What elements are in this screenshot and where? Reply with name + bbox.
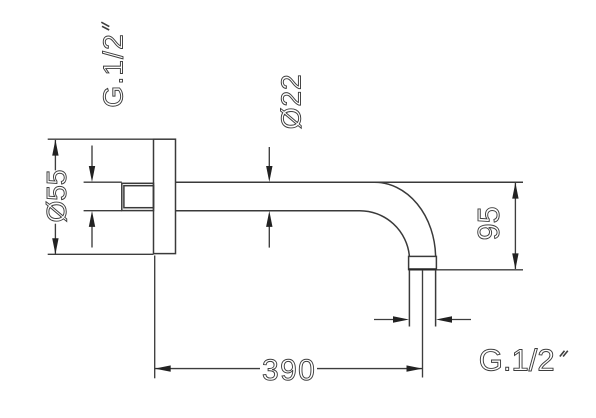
thread arrow down to tube top	[89, 146, 95, 183]
dimension 95 bottom extension line	[436, 269, 523, 271]
svg-text:Ø55: Ø55	[41, 170, 72, 223]
threaded wall connector outer rectangle	[122, 183, 154, 210]
dimension 390 line right segment	[317, 368, 423, 370]
svg-text:Ø22: Ø22	[276, 73, 307, 129]
tube centerline below ring	[422, 270, 424, 378]
thread arrow up to tube bottom	[89, 211, 95, 248]
svg-text:G.1/2: G.1/2	[479, 343, 555, 378]
dimension 95 line	[514, 183, 516, 269]
label O55 (rotated)	[41, 170, 72, 223]
label G.1/2 bottom right double prime marks	[560, 351, 568, 357]
dimension O55 top extension line	[48, 138, 154, 140]
shower arm tube bottom line with bend inner arc	[176, 211, 410, 257]
lower nut ring on vertical tube	[409, 256, 437, 269]
svg-text:G.1/2: G.1/2	[97, 33, 128, 107]
shower arm bend outer arc	[375, 182, 436, 256]
dimension 390 left extension line	[154, 256, 156, 379]
dimension 95 arrow down	[512, 253, 518, 269]
label 95 (rotated)	[472, 206, 506, 240]
dimension 390 line left segment	[155, 368, 260, 370]
thread left extension line top	[84, 181, 122, 183]
thread left extension line bottom	[84, 210, 122, 212]
label 390	[262, 354, 316, 387]
label G.1/2 top left (rotated)	[97, 33, 128, 107]
label G.1/2 top left double prime marks	[101, 22, 109, 30]
dimension 390 arrow right	[407, 365, 423, 371]
dimension O22 arrow up to tube bottom	[266, 211, 272, 248]
dimension O55 arrow up	[52, 140, 58, 156]
label O22 (rotated)	[276, 73, 307, 129]
dimension 390 arrow left	[155, 365, 171, 371]
outlet arrow pointing right to tube left line	[374, 316, 409, 322]
svg-text:95: 95	[472, 206, 506, 240]
dimension 95 arrow up	[512, 183, 518, 199]
vertical tube lower section right line	[435, 270, 437, 327]
wall flange plate	[154, 139, 176, 253]
shower arm tube top line with right extension	[176, 181, 524, 183]
dimension O22 arrow down to tube top	[266, 147, 272, 182]
svg-text:390: 390	[262, 354, 316, 387]
outlet arrow pointing left to tube right line	[436, 316, 471, 322]
vertical tube lower section left line	[408, 270, 410, 327]
dimension O55 bottom extension line	[48, 253, 154, 255]
dimension O55 line lower segment	[54, 224, 56, 254]
label G.1/2 bottom right	[479, 343, 555, 378]
threaded wall connector inner rectangle	[124, 186, 154, 208]
dimension O55 line upper segment	[54, 140, 56, 170]
dimension O55 arrow down	[52, 238, 58, 254]
